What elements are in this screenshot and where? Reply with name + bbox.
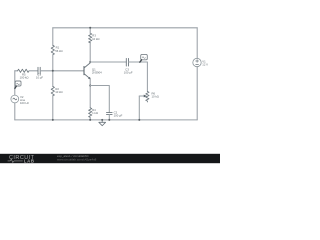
svg-text:10 kΩ: 10 kΩ [92, 37, 99, 41]
capacitor C2 [107, 113, 113, 115]
wire V1 column [196, 28, 198, 120]
svg-text:10 kΩ: 10 kΩ [152, 95, 159, 99]
capacitor C1 [38, 67, 40, 74]
node collector output junction [89, 61, 91, 63]
footer bar [0, 154, 220, 163]
R6 value label [152, 92, 159, 99]
wire bottom ground rail [15, 119, 197, 121]
V1 value label [202, 59, 208, 66]
R5 value label [20, 72, 29, 79]
wire R4 to ground rail [89, 117, 91, 120]
node wiper rail junction [138, 119, 140, 121]
svg-text:LAB: LAB [24, 159, 35, 164]
wire top VCC rail [53, 27, 197, 29]
wire collector output run [90, 61, 126, 63]
footer logo CircuitLab [8, 155, 35, 164]
wire emitter bypass branch [90, 86, 109, 113]
source V1 DC [193, 58, 201, 66]
svg-text:100 µF: 100 µF [124, 70, 133, 74]
wire emitter column [89, 79, 91, 108]
R3 value label [92, 34, 99, 41]
wire collector column above transistor [89, 43, 91, 62]
resistor R4 [89, 108, 92, 117]
wire left divider column middle [52, 55, 54, 87]
svg-text:100 Hz: 100 Hz [20, 101, 29, 105]
probe box input [15, 81, 21, 88]
svg-text:10 kΩ: 10 kΩ [55, 90, 62, 94]
R4 value label [92, 108, 98, 115]
footer text [57, 154, 97, 162]
R1 value label [55, 46, 62, 53]
svg-text:1 kΩ: 1 kΩ [92, 111, 98, 115]
resistor R3 [89, 33, 92, 42]
node divider rail junction [52, 119, 54, 121]
wire C3 to load column [129, 62, 148, 92]
wire R3 to VCC rail [89, 28, 91, 33]
V2 value label [20, 95, 29, 105]
C2 value label [114, 110, 123, 117]
wire pot wiper to ground rail [138, 96, 140, 120]
resistor R1 [51, 45, 54, 55]
C3 value label [124, 67, 133, 74]
svg-text:100 µF: 100 µF [114, 113, 123, 117]
wire left divider column lower [52, 96, 54, 120]
svg-text:12 V: 12 V [202, 62, 208, 66]
node emitter bypass junction [89, 85, 91, 87]
wire capacitor to base [40, 70, 84, 72]
Q1 value label [92, 68, 102, 75]
svg-text:www.circuitlab.com/c42ya4n8: www.circuitlab.com/c42ya4n8 [57, 158, 97, 162]
resistor R6 potentiometer [139, 92, 149, 102]
svg-text:2N3904: 2N3904 [92, 71, 102, 75]
node base divider junction [52, 70, 54, 72]
source V2 sine [11, 95, 19, 103]
R2 value label [55, 87, 62, 94]
ground [99, 119, 106, 126]
resistor R2 [51, 86, 54, 96]
node R4 rail junction [89, 119, 91, 121]
wire left divider column upper [52, 28, 54, 46]
node C2 rail junction [108, 119, 110, 121]
node R3 rail junction [89, 27, 91, 29]
wire resistor to capacitor [29, 70, 38, 72]
resistor R5 [18, 69, 29, 72]
svg-text:56 kΩ: 56 kΩ [55, 49, 62, 53]
wire C2 to ground rail [108, 115, 110, 120]
wire input source column [14, 71, 16, 120]
svg-text:100 kΩ: 100 kΩ [20, 75, 29, 79]
transistor Q1 [84, 63, 90, 79]
capacitor C3 [126, 58, 128, 66]
svg-text:10 µF: 10 µF [36, 75, 43, 79]
probe box output [140, 54, 148, 62]
wire input to resistor [15, 70, 18, 72]
C1 value label [36, 72, 43, 79]
